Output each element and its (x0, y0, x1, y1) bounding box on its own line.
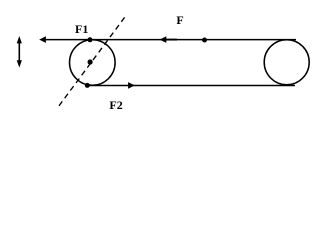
node F1: tangent point on top of left pulley (88, 37, 93, 42)
wire bottom belt line (87, 85, 295, 87)
node: application point of force F (202, 38, 207, 43)
dashed diagonal axis line through left pulley center (59, 17, 125, 105)
arrowhead left end of top belt (belt direction) (39, 36, 46, 43)
node: center of left pulley (88, 59, 93, 64)
svg-text:F: F (176, 13, 183, 27)
pulley left circle (70, 40, 116, 86)
arrowhead on bottom belt pointing right (128, 82, 135, 89)
double-headed vertical arrow (oscillation indicator) (17, 36, 22, 68)
wire force F vector line overlapping belt (166, 39, 177, 41)
node F2: tangent point on bottom of left pulley (85, 83, 90, 88)
svg-text:F2: F2 (109, 98, 122, 112)
svg-text:F1: F1 (75, 22, 88, 36)
arrowhead force F pointing left on top line (160, 36, 167, 43)
pulley right circle (264, 40, 309, 85)
wire top belt line (44, 39, 297, 41)
